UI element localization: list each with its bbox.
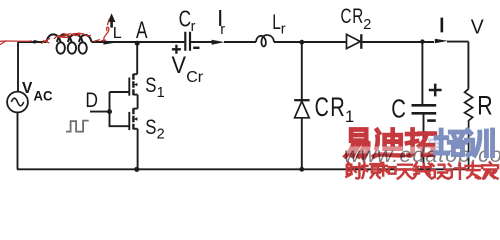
svg-text:L: L [113, 25, 122, 42]
svg-text:L: L [272, 10, 281, 34]
svg-text:C: C [391, 94, 406, 124]
svg-text:1: 1 [157, 85, 165, 101]
svg-text:S: S [145, 73, 156, 97]
svg-text:V: V [22, 80, 33, 97]
svg-text:R: R [477, 91, 492, 121]
svg-text:2: 2 [157, 127, 165, 143]
svg-text:C: C [179, 5, 192, 31]
svg-text:I: I [439, 14, 445, 37]
svg-text:Cr: Cr [186, 69, 204, 86]
svg-text:R: R [330, 92, 345, 122]
svg-text:R: R [352, 4, 363, 28]
svg-text:S: S [145, 115, 156, 139]
svg-text:V: V [172, 52, 187, 79]
svg-text:2: 2 [363, 17, 371, 33]
svg-text:r: r [220, 22, 225, 38]
svg-text:C: C [341, 4, 352, 28]
svg-text:V: V [471, 16, 484, 39]
svg-text:AC: AC [34, 88, 53, 103]
svg-text:D: D [85, 88, 98, 112]
svg-text:A: A [136, 17, 148, 44]
svg-text:r: r [191, 19, 196, 35]
svg-text:r: r [281, 22, 286, 38]
svg-text:1: 1 [345, 108, 354, 126]
svg-text:C: C [315, 92, 329, 122]
